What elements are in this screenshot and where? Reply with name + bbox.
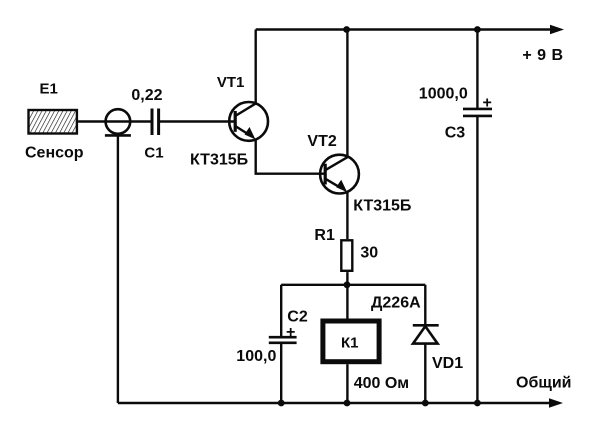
svg-text:100,0: 100,0 (236, 348, 276, 365)
node C3 / bottom rail (474, 400, 481, 407)
node C2 / bottom rail (278, 400, 285, 407)
relay K1 (323, 321, 379, 362)
wire terminal to C1 (105, 120, 151, 122)
capacitor C1 (152, 109, 159, 136)
node mid junction (344, 281, 351, 288)
wire left vertical down from terminal (117, 135, 119, 403)
wire C1 to VT1 base (159, 120, 235, 122)
svg-text:+ 9 В: + 9 В (522, 47, 563, 64)
svg-text:400 Ом: 400 Ом (354, 375, 409, 392)
capacitor C2 (269, 337, 297, 343)
wire VT2 collector vertical (346, 30, 348, 157)
svg-text:VD1: VD1 (432, 355, 463, 372)
wire sensor to terminal (78, 120, 105, 122)
svg-text:1000,0: 1000,0 (419, 86, 468, 103)
svg-text:VT1: VT1 (217, 74, 245, 91)
wire VT1 collector vertical (254, 30, 256, 105)
svg-text:С1: С1 (144, 144, 163, 161)
svg-text:Д226А: Д226А (371, 295, 421, 312)
svg-text:VT2: VT2 (307, 133, 336, 150)
wire VT1 emitter down and right to VT2 base (256, 140, 326, 174)
capacitor C3 (463, 109, 492, 116)
diode VD1 (413, 325, 439, 343)
sensor E1 (29, 110, 77, 134)
node K1 / bottom rail (344, 400, 351, 407)
svg-text:КТ315Б: КТ315Б (353, 198, 411, 215)
wire C2 branch upper (280, 285, 282, 337)
terminal circle at sensor node (106, 109, 131, 134)
svg-text:+: + (286, 324, 295, 341)
node junction top rail / VT2 collector (343, 26, 350, 33)
svg-text:0,22: 0,22 (131, 87, 162, 104)
svg-text:С2: С2 (287, 309, 308, 326)
wire mid horizontal (281, 284, 425, 286)
wire top rail +9V (256, 28, 552, 30)
svg-text:+: + (483, 95, 492, 112)
resistor R1 (341, 240, 352, 270)
wire C3 branch upper (476, 30, 478, 110)
arrowhead top rail (550, 25, 564, 34)
wire VT2 emitter down to R1 (346, 193, 348, 240)
svg-text:Сенсор: Сенсор (25, 145, 84, 162)
arrowhead bottom rail (549, 398, 563, 407)
wire VD1 branch lower (424, 344, 426, 403)
wire VD1 branch upper (424, 285, 426, 326)
svg-text:К1: К1 (341, 334, 359, 351)
transistor VT1 (229, 102, 268, 141)
svg-text:С3: С3 (445, 124, 466, 141)
svg-text:30: 30 (360, 244, 378, 261)
wire C2 branch lower (280, 343, 282, 403)
wire bottom rail (118, 402, 551, 404)
svg-text:КТ315Б: КТ315Б (190, 152, 248, 169)
terminal base line (105, 134, 131, 137)
node junction top rail / C3 (474, 26, 481, 33)
wire C3 branch lower (476, 116, 478, 403)
svg-text:Е1: Е1 (40, 80, 58, 97)
transistor VT2 (320, 155, 359, 194)
wire K1 to bottom rail (346, 364, 348, 403)
svg-text:Общий: Общий (516, 375, 572, 392)
node VD1 / bottom rail (422, 400, 429, 407)
svg-text:R1: R1 (314, 227, 335, 244)
wire R1 to mid junction (346, 272, 348, 318)
